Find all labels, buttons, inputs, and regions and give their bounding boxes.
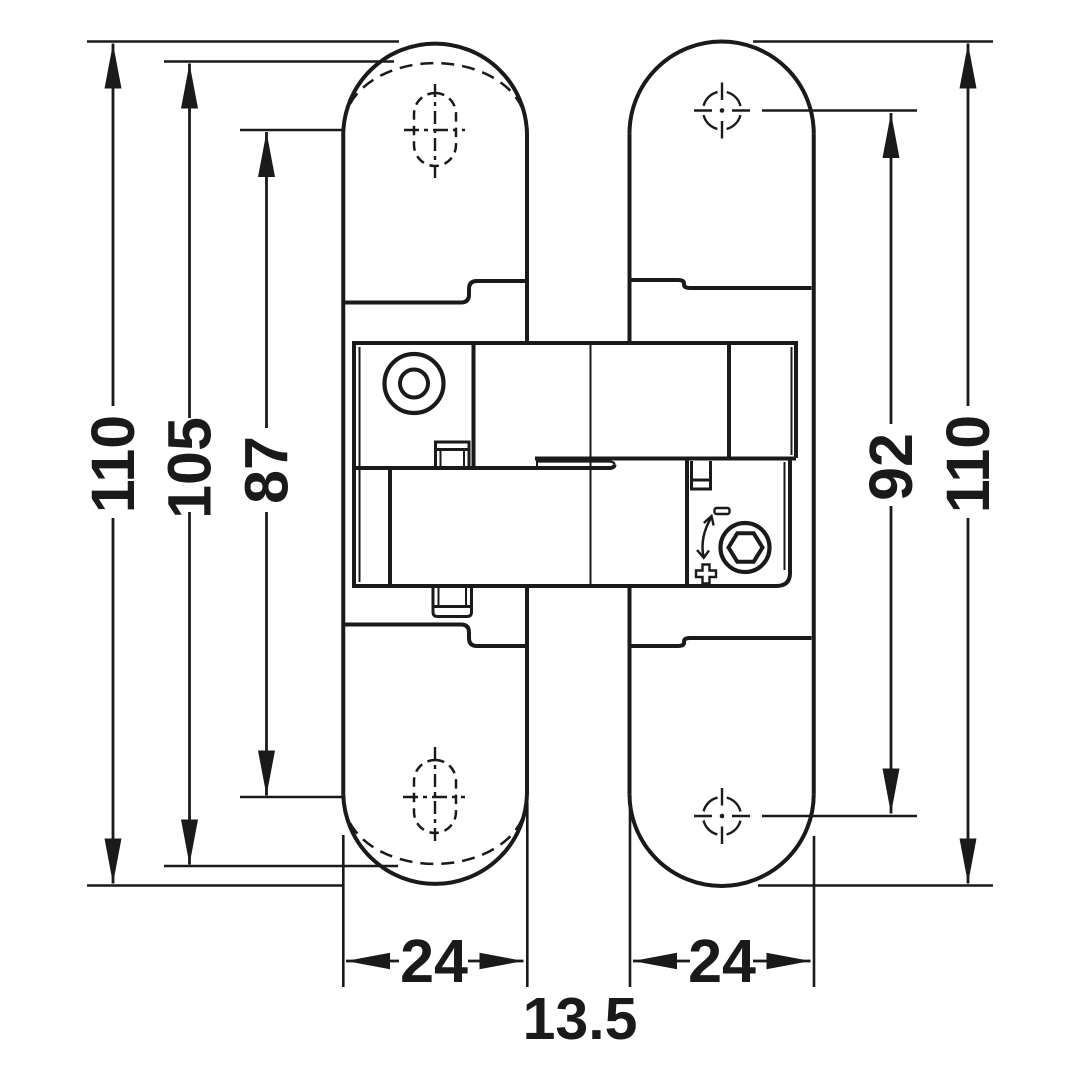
dashed cup outline bottom arc [344, 803, 526, 864]
bottom band divider x=687 [685, 459, 689, 586]
ext line 110 left bottom [87, 884, 344, 887]
extension lines [87, 42, 993, 988]
left plate bottom step line [345, 625, 525, 647]
arrowheads [105, 44, 977, 970]
minus mark [715, 508, 730, 514]
hinge body bottom edge with rounded right corner [352, 460, 790, 586]
top clip [436, 442, 470, 467]
right plate bottom step line [632, 638, 812, 646]
top right cross-hole mark [694, 83, 750, 139]
bottom oblong screw hole (dashed) [414, 760, 456, 833]
body right edge top band [794, 341, 798, 458]
plus mark [696, 565, 716, 584]
ext line 105 bottom [164, 865, 398, 868]
pivot boss outer circle [385, 354, 444, 413]
ext line 110 right top [753, 40, 993, 43]
dimension lines [113, 44, 968, 962]
inner thin line right top band [791, 347, 793, 455]
ext line 24 left outer [342, 835, 345, 987]
dashed cup outline top arc (105 mm) [344, 63, 526, 124]
right wing top edge [535, 457, 796, 461]
inner thin line left column [359, 347, 361, 582]
ext line 87 top [240, 129, 343, 132]
bottom band left edge x=390 [388, 467, 392, 586]
ext line 92 bottom [762, 815, 917, 818]
dim line 87 [265, 132, 268, 796]
dim line 24 left [346, 960, 524, 963]
svg-text:24: 24 [400, 927, 468, 995]
body divider x=729 [727, 343, 731, 459]
top oblong hole centerlines [404, 129, 465, 131]
ext line 110 right bottom [758, 884, 993, 887]
svg-text:105: 105 [156, 417, 224, 519]
hex socket [729, 533, 763, 561]
inner thin line right bottom band [784, 462, 786, 570]
left mounting plate outline [343, 44, 527, 884]
body thin divider x=590.5 [590, 345, 592, 584]
dim line 92 [890, 113, 893, 814]
ext line 24 left inner [526, 803, 529, 987]
ext line 105 top [164, 60, 394, 63]
svg-text:13.5: 13.5 [523, 986, 638, 1052]
pivot boss inner circle [400, 370, 428, 398]
right wing clip [692, 461, 711, 489]
dim line 110 left [112, 44, 115, 884]
hinge body top edge [352, 341, 796, 345]
svg-text:24: 24 [688, 927, 756, 995]
ext line 87 bottom [240, 796, 343, 799]
svg-text:110: 110 [79, 415, 147, 513]
right mounting plate outline [630, 42, 814, 886]
left plate top step line [345, 281, 525, 303]
top oblong screw hole (dashed) [414, 93, 456, 166]
bottom clip [433, 588, 472, 617]
svg-text:92: 92 [857, 433, 925, 501]
ext line 24 right inner [629, 803, 632, 987]
body divider x=473.5 [472, 343, 476, 467]
ext line 24 right outer [813, 836, 816, 987]
adjustment hex screw [721, 523, 770, 572]
svg-text:110: 110 [934, 415, 1002, 513]
dim line 110 right [967, 44, 970, 884]
adjustment curved arrow [703, 517, 712, 557]
dim line 24 right [633, 960, 811, 963]
ext line 110 left top [87, 40, 399, 43]
bottom oblong hole centerlines [403, 796, 465, 798]
ext line 92 top [762, 109, 917, 112]
dim line 105 [188, 64, 191, 865]
right plate top step line [632, 280, 812, 288]
bottom right cross-hole mark [694, 788, 750, 844]
left wing lower edge [354, 465, 615, 468]
svg-text:87: 87 [233, 436, 301, 504]
hinge body left edge [352, 341, 356, 588]
sliding tongue [537, 462, 615, 465]
